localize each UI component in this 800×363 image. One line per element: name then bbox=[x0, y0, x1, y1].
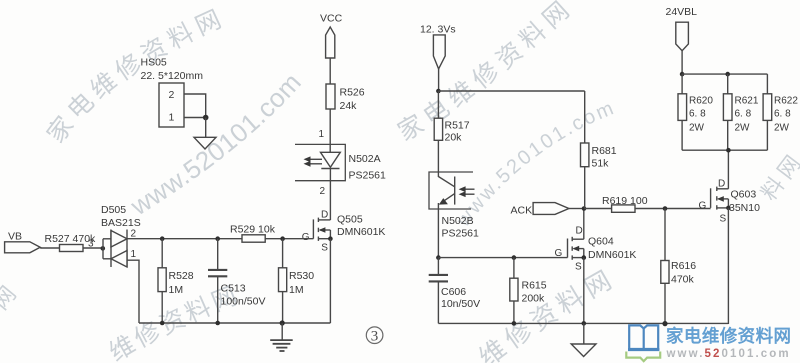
transistor Q603 35N10 bbox=[699, 179, 761, 225]
svg-text:DMN601K: DMN601K bbox=[588, 249, 636, 261]
node HS05 junction bbox=[203, 115, 209, 121]
svg-text:3: 3 bbox=[371, 329, 379, 345]
node ACK junction bbox=[582, 206, 587, 211]
node rail R615 bbox=[512, 321, 517, 326]
wire ACK to node bbox=[569, 208, 584, 210]
svg-text:G: G bbox=[699, 201, 707, 212]
svg-text:R622: R622 bbox=[774, 96, 798, 107]
wire Q603 source down bbox=[727, 208, 729, 324]
svg-text:470k: 470k bbox=[671, 274, 695, 286]
svg-text:Q505: Q505 bbox=[337, 214, 363, 226]
capacitor C513 bbox=[208, 239, 265, 323]
resistor R526 bbox=[326, 84, 365, 112]
node R615 top bbox=[512, 255, 517, 260]
svg-text:2: 2 bbox=[169, 89, 175, 101]
svg-text:VCC: VCC bbox=[320, 13, 343, 25]
wire R527 to D505 bbox=[83, 247, 103, 249]
svg-text:N502A: N502A bbox=[349, 153, 381, 165]
resistor R615 bbox=[510, 258, 547, 324]
wire R529 to Q505 gate bbox=[265, 238, 313, 240]
svg-text:10n/50V: 10n/50V bbox=[441, 298, 480, 310]
net 12.3Vs flag bbox=[420, 24, 456, 69]
svg-text:S: S bbox=[720, 214, 727, 225]
svg-text:C606: C606 bbox=[441, 286, 466, 298]
svg-text:6. 8: 6. 8 bbox=[774, 109, 791, 120]
svg-text:R620: R620 bbox=[689, 96, 713, 107]
resistor R681 bbox=[581, 91, 617, 209]
wire 24VBL down bbox=[681, 51, 683, 74]
wire R526 to N502A pin1 bbox=[329, 109, 331, 152]
wire Q604 source down bbox=[583, 258, 585, 324]
resistor R530 bbox=[279, 239, 315, 323]
svg-text:R526: R526 bbox=[340, 87, 365, 99]
svg-text:1: 1 bbox=[131, 249, 137, 260]
svg-text:2W: 2W bbox=[689, 123, 705, 134]
resistor R620 bbox=[678, 74, 713, 150]
svg-text:DMN601K: DMN601K bbox=[337, 226, 385, 238]
svg-text:ACK: ACK bbox=[511, 205, 533, 217]
svg-text:22. 5*120mm: 22. 5*120mm bbox=[141, 70, 204, 82]
wire 12.3Vs down bbox=[438, 69, 440, 91]
svg-text:R530: R530 bbox=[289, 270, 314, 282]
svg-text:Q603: Q603 bbox=[731, 189, 757, 201]
page number circle 3 bbox=[366, 327, 383, 345]
node R530 top bbox=[280, 236, 285, 241]
svg-text:Q604: Q604 bbox=[588, 236, 614, 248]
transistor Q505 DMN601K bbox=[302, 210, 386, 254]
svg-text:20k: 20k bbox=[445, 132, 463, 144]
svg-text:R681: R681 bbox=[592, 145, 617, 157]
wire HS05 pin1 bbox=[184, 117, 206, 119]
node emitter junction bbox=[436, 255, 441, 260]
wire 12.3Vs to R681 bbox=[438, 90, 584, 92]
wire Q603 drain up bbox=[727, 150, 729, 189]
net ACK flag bbox=[511, 203, 569, 217]
svg-text:家电维修资料网: 家电维修资料网 bbox=[666, 326, 791, 346]
node R621 top bbox=[725, 72, 730, 77]
wire to ground bbox=[205, 118, 207, 138]
svg-text:100n/50V: 100n/50V bbox=[221, 296, 266, 308]
ground triangle right bbox=[571, 344, 596, 357]
net VB flag bbox=[5, 231, 41, 253]
node 12.3Vs junction bbox=[436, 89, 441, 94]
wire VCC to R526 bbox=[329, 58, 331, 84]
resistor R619 bbox=[602, 195, 648, 212]
wire Q604 drain up bbox=[583, 209, 585, 240]
svg-text:G: G bbox=[302, 232, 310, 243]
svg-text:24k: 24k bbox=[340, 100, 358, 112]
transistor Q604 DMN601K bbox=[555, 226, 637, 273]
svg-text:D505: D505 bbox=[101, 204, 126, 216]
node bus to Q603 drain bbox=[726, 148, 731, 153]
svg-text:6. 8: 6. 8 bbox=[735, 109, 752, 120]
net 24VBL flag bbox=[666, 6, 698, 51]
logo book base green bbox=[626, 352, 660, 362]
svg-text:C513: C513 bbox=[221, 283, 246, 295]
node D505 pin3 bbox=[101, 246, 106, 251]
svg-text:3: 3 bbox=[88, 239, 94, 250]
svg-text:1M: 1M bbox=[289, 284, 304, 296]
wire top bus bbox=[682, 73, 767, 75]
svg-text:PS2561: PS2561 bbox=[349, 170, 387, 182]
resistor R621 bbox=[723, 74, 758, 150]
opto-coupler LED N502A PS2561 bbox=[295, 144, 386, 181]
svg-text:2: 2 bbox=[320, 186, 326, 197]
wire bottom rail right bbox=[438, 322, 728, 324]
svg-text:BAS21S: BAS21S bbox=[101, 217, 141, 229]
svg-text:D: D bbox=[321, 210, 328, 221]
ground triangle under HS05 bbox=[194, 137, 216, 149]
svg-text:S: S bbox=[575, 262, 582, 273]
svg-text:R528: R528 bbox=[169, 270, 194, 282]
resistor R528 bbox=[158, 239, 194, 323]
diode D505 BAS21S bbox=[101, 204, 141, 267]
wire bottom rail left bbox=[139, 322, 330, 324]
svg-text:12. 3Vs: 12. 3Vs bbox=[420, 24, 456, 36]
svg-text:1M: 1M bbox=[169, 284, 184, 296]
resistor R616 bbox=[661, 209, 696, 324]
node R616 top bbox=[663, 206, 668, 211]
wire bottom bus 24VBL group bbox=[682, 149, 767, 151]
wire VB to R527 bbox=[40, 247, 59, 249]
svg-text:R621: R621 bbox=[735, 96, 759, 107]
svg-text:2W: 2W bbox=[774, 123, 790, 134]
capacitor C606 bbox=[429, 258, 480, 324]
connector HS05 bbox=[141, 57, 204, 128]
wire to ground right bbox=[583, 323, 585, 344]
svg-text:PS2561: PS2561 bbox=[442, 228, 480, 240]
svg-text:200k: 200k bbox=[522, 293, 546, 305]
ground earth symbol bbox=[270, 323, 293, 351]
svg-text:N502B: N502B bbox=[442, 215, 474, 227]
resistor R529 bbox=[230, 224, 276, 243]
svg-text:2W: 2W bbox=[735, 123, 751, 134]
node C513 top bbox=[215, 236, 220, 241]
svg-text:51k: 51k bbox=[592, 158, 610, 170]
wire N502B emitter down bbox=[437, 203, 439, 258]
resistor R517 bbox=[434, 91, 470, 144]
svg-text:VB: VB bbox=[8, 231, 22, 243]
svg-text:1: 1 bbox=[319, 129, 325, 140]
node rail C513 bbox=[215, 321, 220, 326]
opto-coupler transistor N502B PS2561 bbox=[429, 172, 479, 240]
node rail ground bbox=[280, 320, 285, 325]
svg-text:D: D bbox=[576, 226, 583, 237]
svg-text:G: G bbox=[555, 248, 563, 259]
node rail R528 bbox=[160, 321, 165, 326]
wire N502A pin2 to Q505 drain bbox=[329, 169, 331, 221]
net VCC flag bbox=[320, 13, 343, 59]
svg-text:R615: R615 bbox=[522, 280, 547, 292]
resistor R527 bbox=[45, 233, 97, 252]
wire ACK node to R619 bbox=[584, 208, 612, 210]
node 24VBL bus bbox=[680, 72, 685, 77]
node rail Q604 source bbox=[582, 321, 587, 326]
svg-text:R619 100: R619 100 bbox=[602, 195, 648, 207]
svg-text:D: D bbox=[718, 179, 725, 190]
svg-text:6. 8: 6. 8 bbox=[689, 109, 706, 120]
svg-text:1: 1 bbox=[169, 112, 175, 124]
svg-text:24VBL: 24VBL bbox=[666, 6, 698, 18]
svg-text:R616: R616 bbox=[671, 260, 696, 272]
svg-text:35N10: 35N10 bbox=[729, 202, 760, 214]
svg-text:R529 10k: R529 10k bbox=[230, 224, 276, 236]
wire node rail top: D505 pin2 to R529 bbox=[127, 238, 242, 240]
svg-text:www.520101.com: www.520101.com bbox=[666, 348, 791, 360]
wire R619 to Q603 gate bbox=[635, 208, 711, 210]
svg-text:R517: R517 bbox=[445, 120, 470, 132]
svg-text:S: S bbox=[321, 243, 328, 254]
wire emitter to Q604 gate bbox=[438, 257, 567, 259]
node rail R616 bbox=[662, 321, 667, 326]
node R528 top bbox=[160, 236, 165, 241]
wire Q505 source down bbox=[329, 239, 331, 323]
svg-text:2: 2 bbox=[131, 229, 137, 240]
wire D505 pin1 down to rail bbox=[127, 260, 139, 323]
wire R517 to N502B collector bbox=[437, 140, 439, 177]
logo book icon bbox=[628, 325, 659, 349]
resistor R622 bbox=[763, 74, 798, 150]
wire HS05 pin2 bbox=[184, 94, 206, 118]
svg-text:HS05: HS05 bbox=[141, 57, 167, 69]
